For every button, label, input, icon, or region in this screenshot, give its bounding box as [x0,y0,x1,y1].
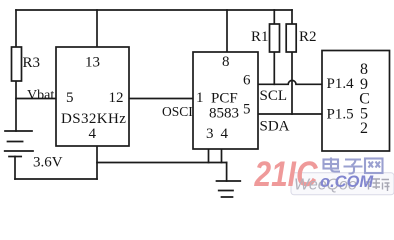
svg-text:P1.4: P1.4 [327,76,355,92]
svg-text:R3: R3 [23,55,41,71]
svg-text:1: 1 [196,90,204,106]
svg-text:OSCI: OSCI [162,104,193,119]
svg-text:13: 13 [85,55,100,71]
svg-text:SCL: SCL [260,88,288,104]
svg-text:2: 2 [360,120,368,137]
svg-text:3: 3 [206,126,214,142]
svg-text:PCF: PCF [211,91,238,107]
svg-text:8: 8 [222,54,230,70]
svg-text:8583: 8583 [209,106,239,122]
svg-text:3.6V: 3.6V [33,155,63,171]
svg-text:Vbat: Vbat [27,88,54,103]
svg-text:SDA: SDA [260,119,290,135]
svg-text:R1: R1 [251,29,269,45]
svg-text:5: 5 [66,90,74,106]
svg-text:6: 6 [243,73,251,89]
svg-text:o.COM: o.COM [320,173,374,191]
svg-text:R2: R2 [299,29,317,45]
svg-text:4: 4 [221,126,229,142]
svg-text:4: 4 [89,126,97,142]
svg-text:P1.5: P1.5 [327,107,354,123]
svg-text:12: 12 [109,90,124,106]
svg-text:DS32KHz: DS32KHz [61,111,126,127]
svg-text:5: 5 [243,102,251,118]
